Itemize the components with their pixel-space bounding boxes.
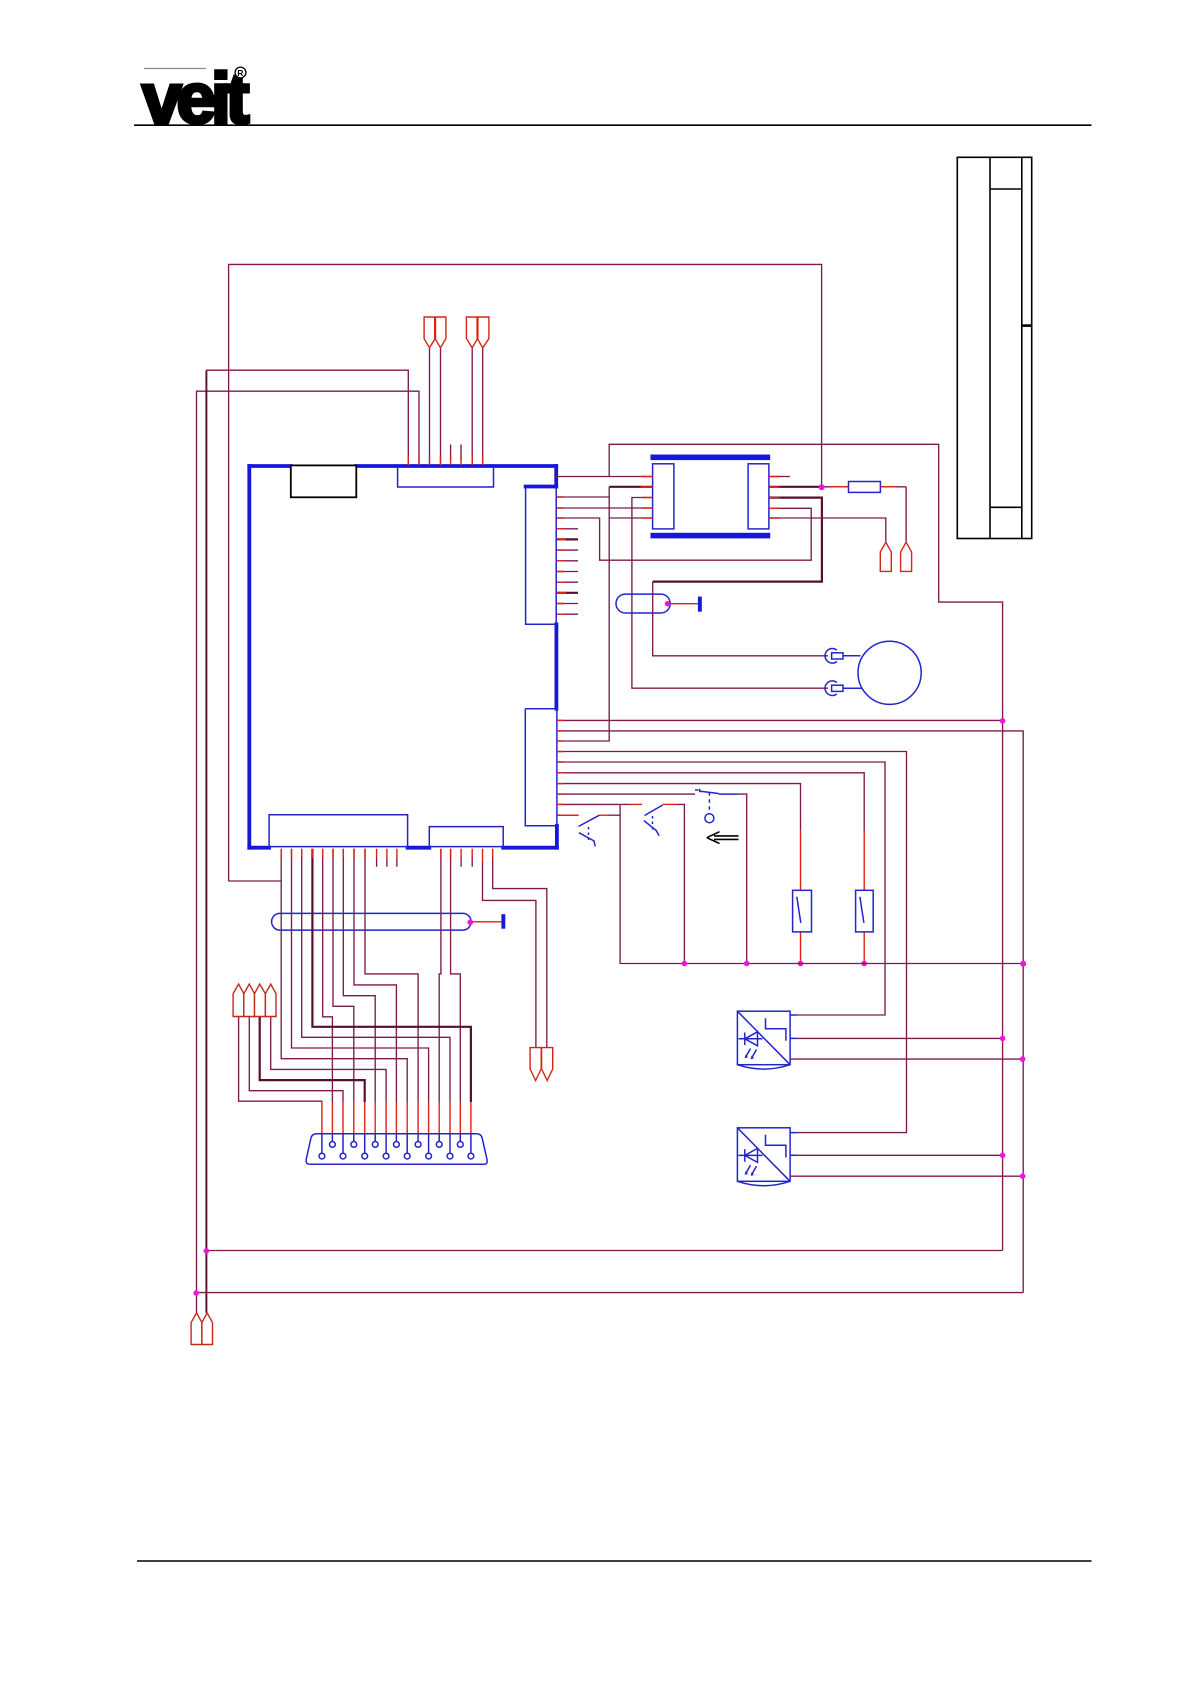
wire net N16 (X3.7 to relay K1): [557, 784, 801, 830]
switch S1: [579, 815, 621, 846]
bottom bus 2 (N12 return): [197, 1292, 1024, 1294]
svg-text:R: R: [237, 68, 243, 78]
connector flag P7: [542, 1048, 553, 1081]
wire (thick nets): [260, 849, 471, 1102]
wire net N5 (T1 pin L2 down to X3.3): [609, 486, 652, 488]
optocoupler U3: [737, 1128, 790, 1186]
junction dot: [1000, 718, 1006, 724]
wire net R5 to flag P6: [483, 862, 536, 1048]
connector flag P2 (bottom left pair): [191, 1313, 202, 1345]
opto pin stubs (blue): [790, 1015, 797, 1155]
connector X4 (board bottom left): [269, 815, 408, 847]
X3 pin red stubs: [557, 720, 564, 804]
motor M1: [825, 641, 921, 704]
connector flag P2a/P2b (top pair 2): [466, 317, 489, 466]
wire net N3 (inner left loop to pin X1.1 and flag P3): [206, 370, 408, 466]
pin stubs X1.5 X1.6: [451, 445, 461, 461]
connector X2 (board right upper): [526, 487, 557, 624]
transformer T1: [651, 455, 771, 539]
wire T1 pin R1 stub: [769, 476, 790, 478]
wire net N15 (X3.6 to relay K2): [557, 773, 864, 830]
thermal fuse F2 (long capsule): [272, 913, 506, 930]
DB connector J1: [310, 1134, 485, 1165]
wire U2 pin2 to N4: [797, 1037, 1003, 1039]
wire: [229, 880, 282, 882]
pin red stubs X1.1-4,7,8: [408, 457, 482, 465]
junction dot: [798, 961, 804, 967]
wire X2.2 to T1 pin L4: [557, 507, 653, 509]
wire X3.3 stub red: [557, 740, 564, 742]
wire net N13 (X3.4 to opto U3 pin1): [557, 752, 907, 1133]
wire net R6 to flag P7: [493, 858, 547, 1048]
optocoupler U2: [737, 1011, 790, 1069]
X5 pin stubs and wires: [441, 849, 493, 862]
wire net N9 (T1 pin R3 down-around to motor cap 1): [653, 498, 822, 582]
junction dot: [1020, 961, 1026, 967]
junction dot: [861, 961, 867, 967]
wire net N10 (T1 pin R5 to flag P4): [769, 518, 886, 542]
wire red leads into DB: [322, 1102, 471, 1134]
X2 pin red stubs: [557, 497, 564, 518]
veit logo: [142, 60, 249, 139]
wire X2.1 to N5: [557, 496, 609, 498]
wire harness X4/X5 to DB connector: [239, 849, 461, 1102]
wire net N8 (T1 pin R2 to resistor R1): [769, 486, 822, 488]
wire U2 pin3 to N12: [790, 1058, 1023, 1060]
wire net N11 (X3.1 to opto U2 collector): [557, 719, 1003, 721]
wire T1 pin L5 to N5: [609, 517, 652, 519]
switch S2: [621, 804, 687, 966]
thermal fuse F1 (capsule): [616, 594, 702, 613]
X4 pin stubs: [281, 849, 397, 858]
wire X3.10 to switch S1: [557, 814, 579, 816]
arrow (actuator direction): [707, 832, 739, 844]
board module (black box): [291, 465, 357, 497]
connector flags P8-P11 (bottom left cluster): [233, 984, 244, 1016]
relay contact K1: [793, 890, 812, 932]
wire net N17 (X3.9 down / S-bus): [557, 804, 1023, 963]
bottom bus 1 (N4 return): [206, 1250, 1002, 1252]
wire net N6 (T1 pin L3 to motor cap 2): [632, 498, 828, 689]
resistor R1: [849, 482, 881, 493]
controller board U1 outline: [249, 466, 557, 848]
connector flag P1a/P1b (top pair 1): [424, 317, 446, 466]
T1 pin red stubs: [641, 477, 780, 519]
connector X5 (board bottom right): [429, 827, 503, 847]
footer rule: [137, 1560, 1092, 1562]
wire X3.8 to switch S3: [557, 793, 695, 795]
wire net N2 (outer left loop to pin X1.2 and flag P2): [197, 391, 420, 1313]
connector X3 (board right lower): [525, 709, 557, 826]
wire U3 pin2 to N4: [797, 1154, 1003, 1156]
header rule: [134, 124, 1092, 126]
connector flag P4: [880, 542, 891, 571]
switch S3 (with actuator): [695, 789, 750, 967]
wire U3 pin3 to N12: [790, 1175, 1023, 1177]
wire net N12 (X3.2 long right bus): [557, 731, 1023, 1293]
connector flag P3: [202, 1313, 213, 1345]
wire net N1 (top loop to resistor junction): [229, 264, 822, 881]
terminal strip frame (top right): [957, 157, 1031, 538]
X2 stub pins: [557, 529, 578, 614]
wire net N14 (X3.5 to opto U2 pin1): [557, 762, 885, 1015]
connector flag P6: [530, 1048, 541, 1081]
junction dot: [819, 484, 825, 490]
relay contact K2: [856, 890, 874, 932]
wire: [205, 370, 207, 1313]
wire net N7 (X2.3 / T1 pin R4): [557, 508, 811, 560]
svg-text:veit: veit: [142, 60, 249, 139]
connector X1 (board top): [398, 467, 494, 488]
wire net N4 (T1 pin L1 / board edge / top run): [556, 444, 1002, 1250]
connector flag P5: [901, 542, 912, 571]
